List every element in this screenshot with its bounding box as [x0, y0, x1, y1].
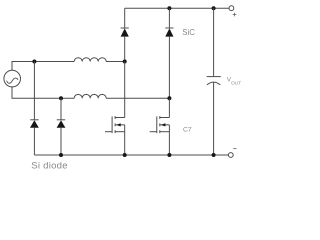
- diode D2 (Si diode, right): [57, 120, 66, 155]
- transistor Q1 (CoolMOS, left): [105, 116, 125, 155]
- transistor Q2 (CoolMOS, right): [150, 116, 170, 155]
- terminal: output +: [229, 6, 236, 17]
- diode D3 (SiC boost diode, left): [121, 28, 129, 62]
- node: bottom rail / D2 junction: [59, 153, 63, 157]
- node: wire2 / D2 tap junction: [59, 96, 63, 100]
- ac source: [4, 70, 21, 87]
- wire: L1 to left leg: [106, 61, 125, 63]
- inductor L1: [74, 58, 106, 62]
- svg-text:Si diode: Si diode: [31, 161, 68, 172]
- node: wire1 / D1 tap junction: [32, 60, 36, 64]
- label: Vout: [227, 76, 242, 86]
- wire: top rail: [125, 7, 229, 9]
- capacitor Cout: [207, 8, 221, 155]
- wire: right leg from wire2 junction down to Q2 drain: [168, 98, 170, 117]
- wire: ac source bottom lead to wire 2: [12, 87, 74, 98]
- wire: top rail corner down to SiC diode D3: [124, 8, 126, 28]
- node: right leg / wire2 junction: [167, 96, 171, 100]
- node: bottom rail / capacitor junction: [212, 153, 216, 157]
- diode D1 (Si diode, left): [30, 120, 39, 155]
- wire: right leg from top rail to SiC diode D4: [168, 8, 170, 28]
- node: top rail / right leg junction: [167, 6, 171, 10]
- node: bottom rail / Q2 junction: [167, 153, 171, 157]
- node: left leg / wire1 junction: [123, 60, 127, 64]
- node: bottom rail / Q1 junction: [123, 153, 127, 157]
- svg-text:SiC: SiC: [182, 28, 195, 37]
- diode D4 (SiC boost diode, right): [165, 28, 173, 98]
- wire: junction down to Si diode D1 cathode: [33, 62, 35, 120]
- node: top rail / capacitor junction: [212, 6, 216, 10]
- svg-text:C7: C7: [183, 126, 192, 133]
- wire: left leg from wire1 junction down to Q1 drain: [124, 62, 126, 118]
- wire: bottom rail: [34, 154, 228, 156]
- inductor L2: [74, 94, 106, 98]
- wire: ac source top lead to wire 1: [12, 62, 74, 71]
- wire: junction down to Si diode D2 cathode: [60, 98, 62, 120]
- svg-text:OUT: OUT: [231, 80, 241, 86]
- wire: L2 to right leg: [106, 97, 169, 99]
- terminal: output -: [228, 149, 236, 158]
